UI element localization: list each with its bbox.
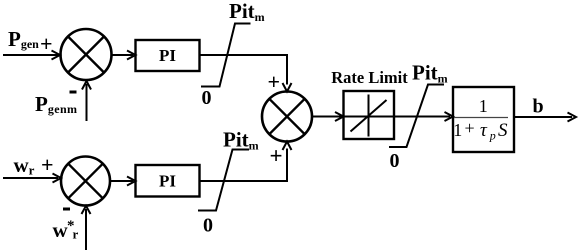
svg-text:S: S bbox=[498, 120, 508, 141]
svg-text:Pitm: Pitm bbox=[229, 0, 265, 24]
minus sign at S2 bbox=[63, 208, 70, 211]
wire: S3 to Rate Limit block and through to lag block bbox=[312, 116, 450, 118]
plus sign at summer S1 input bbox=[40, 31, 53, 56]
svg-text:PI: PI bbox=[159, 172, 176, 191]
svg-text:b: b bbox=[533, 96, 544, 118]
svg-text:r: r bbox=[73, 227, 79, 242]
svg-text:+: + bbox=[270, 144, 283, 169]
svg-text:Pgen: Pgen bbox=[8, 27, 39, 51]
wire: S2 to PI2 bbox=[110, 180, 133, 182]
label Pit_m (L2 upper limit) bbox=[223, 128, 259, 153]
label 0 (L2 lower limit) bbox=[203, 215, 213, 237]
wire: S1 to PI1 bbox=[112, 54, 134, 56]
limiter L3 saturation symbol bbox=[389, 85, 444, 148]
wire: P_genm vertical input bbox=[86, 84, 88, 121]
plus sign at summer S2 input bbox=[41, 152, 54, 177]
node w_r* reference label bbox=[53, 218, 79, 242]
limiter L2 saturation symbol bbox=[198, 150, 249, 211]
label 0 (L1 lower limit) bbox=[202, 87, 212, 109]
wire: w_r* vertical input bbox=[85, 209, 87, 250]
lag block U1: 1/(1+tau_p S) bbox=[453, 87, 514, 152]
svg-text:Pitm: Pitm bbox=[223, 128, 259, 153]
plus sign at S3 top input bbox=[268, 69, 281, 94]
summing junction S2 bbox=[61, 157, 110, 206]
svg-text:Pgenm: Pgenm bbox=[35, 92, 77, 116]
summing junction S1 bbox=[61, 29, 112, 80]
wire: output b arrow bbox=[514, 116, 572, 118]
wire: PI1 output to summer S3 top bbox=[200, 55, 288, 85]
svg-text:p: p bbox=[489, 129, 496, 143]
node w_r input label bbox=[14, 153, 35, 178]
node P_genm label bbox=[35, 92, 77, 116]
svg-text:0: 0 bbox=[203, 215, 213, 237]
wire: P_gen input arrow bbox=[3, 54, 58, 56]
plus sign at S3 bottom input bbox=[270, 144, 283, 169]
rate limiter symbol inside RL bbox=[368, 95, 370, 137]
wire: w_r input arrow bbox=[3, 177, 58, 179]
svg-text:wr: wr bbox=[14, 153, 35, 178]
svg-text:+: + bbox=[465, 118, 475, 138]
label Pit_m (L3 upper limit) bbox=[412, 61, 448, 86]
wire: PI2 output to summer S3 bottom bbox=[200, 149, 288, 182]
svg-text:Rate Limit: Rate Limit bbox=[331, 68, 408, 87]
label Pit_m (L1 upper limit) bbox=[229, 0, 265, 24]
label 0 (L3 lower limit) bbox=[390, 150, 400, 172]
node P_gen input label bbox=[8, 27, 39, 51]
svg-text:+: + bbox=[40, 31, 53, 56]
svg-text:PI: PI bbox=[159, 46, 176, 65]
label Rate Limit bbox=[331, 68, 408, 87]
PI controller block PI2 bbox=[136, 165, 200, 197]
node b output label bbox=[533, 96, 544, 118]
svg-text:0: 0 bbox=[202, 87, 212, 109]
rate limiter block RL bbox=[344, 91, 395, 139]
summing junction S3 bbox=[262, 92, 312, 142]
svg-text:1: 1 bbox=[479, 96, 488, 116]
svg-text:+: + bbox=[41, 152, 54, 177]
PI controller block PI1 bbox=[136, 40, 200, 71]
svg-text:τ: τ bbox=[480, 120, 488, 141]
limiter L1 saturation symbol bbox=[201, 24, 251, 87]
svg-text:0: 0 bbox=[390, 150, 400, 172]
svg-text:Pitm: Pitm bbox=[412, 61, 448, 86]
svg-text:1: 1 bbox=[453, 120, 462, 140]
svg-text:+: + bbox=[268, 69, 281, 94]
minus sign at S1 bbox=[70, 91, 77, 94]
